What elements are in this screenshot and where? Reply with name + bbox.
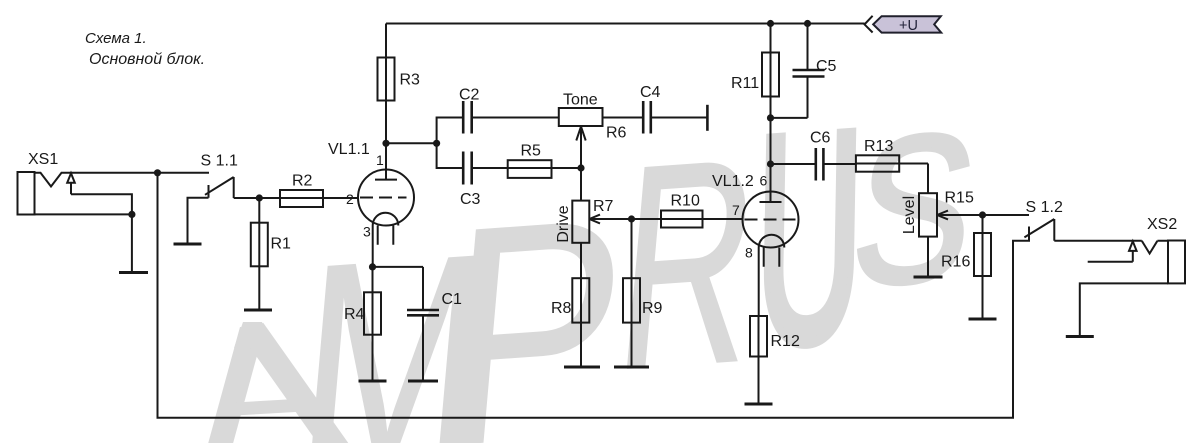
node R5-wiper-R7 xyxy=(577,164,584,171)
svg-text:7: 7 xyxy=(732,202,740,218)
VL1.1 cathode xyxy=(373,213,399,267)
ground R16 xyxy=(969,318,997,321)
wire XS2 ring stub xyxy=(1088,261,1133,263)
wire XS1 tip line xyxy=(35,173,210,187)
svg-text:2: 2 xyxy=(346,191,354,207)
wire ground bus xyxy=(158,173,1030,418)
title text xyxy=(85,30,205,68)
node anode VL1.1 xyxy=(382,140,389,147)
svg-text:R11: R11 xyxy=(731,75,759,92)
svg-text:R16: R16 xyxy=(941,254,970,271)
wire tone output xyxy=(603,117,644,119)
ground C1 xyxy=(408,380,438,383)
resistor R16 xyxy=(974,215,991,319)
svg-text:VL1.2: VL1.2 xyxy=(712,173,754,190)
svg-text:1: 1 xyxy=(376,152,384,168)
node R1-R2 xyxy=(256,194,263,201)
capacitor C2 xyxy=(437,101,559,143)
wire S1.2 to XS2 xyxy=(1054,241,1168,254)
wire node to anode xyxy=(770,118,772,164)
node C5 top xyxy=(804,20,811,27)
svg-text:XS1: XS1 xyxy=(28,151,58,168)
node XS1 sleeve junction xyxy=(128,211,135,218)
svg-text:C3: C3 xyxy=(460,191,481,208)
resistor R8 xyxy=(572,278,589,367)
svg-text:C4: C4 xyxy=(640,84,661,101)
resistor R4 xyxy=(364,267,381,381)
capacitor C4 xyxy=(643,101,707,134)
node R11-C5 xyxy=(767,114,774,121)
ground R8 xyxy=(564,366,600,369)
svg-text:C1: C1 xyxy=(442,291,463,308)
switch S1.1 xyxy=(188,177,234,244)
svg-text:R9: R9 xyxy=(642,300,663,317)
svg-text:R4: R4 xyxy=(344,306,365,323)
connector XS1 xyxy=(18,172,35,215)
svg-text:C6: C6 xyxy=(810,130,831,147)
ground R15 xyxy=(914,276,943,279)
potentiometer R15 Level xyxy=(919,193,983,277)
resistor R11 xyxy=(762,24,779,118)
svg-text:R6: R6 xyxy=(606,125,627,142)
svg-text:Drive: Drive xyxy=(555,205,572,242)
ground XS2 xyxy=(1066,335,1094,338)
svg-text:XS2: XS2 xyxy=(1147,216,1177,233)
svg-text:8: 8 xyxy=(745,245,753,261)
resistor R2 xyxy=(259,190,358,207)
ground XS1 xyxy=(119,271,148,274)
switch S1.2 xyxy=(1024,219,1054,241)
svg-text:Основной блок.: Основной блок. xyxy=(89,51,205,68)
svg-text:R7: R7 xyxy=(593,198,614,215)
VL1.1 grid xyxy=(360,197,407,199)
svg-text:6: 6 xyxy=(760,173,768,189)
wire anode to split xyxy=(386,142,437,144)
node R15-R16 xyxy=(979,211,986,218)
resistor R13 xyxy=(856,155,928,193)
potentiometer R6 Tone xyxy=(559,108,603,168)
svg-text:Схема 1.: Схема 1. xyxy=(85,30,147,47)
tube VL1.1 xyxy=(358,170,414,226)
node wiper R9 R10 xyxy=(628,215,635,222)
watermark AMPRUS xyxy=(216,69,988,443)
XS2 ring contact arrow xyxy=(1129,241,1137,261)
wire S1.1 to node xyxy=(234,197,280,199)
ground S1.1 xyxy=(174,243,202,246)
svg-text:C5: C5 xyxy=(816,58,837,75)
svg-text:3: 3 xyxy=(363,224,371,240)
ground R1 xyxy=(244,309,272,312)
wire XS1 down xyxy=(131,214,133,272)
capacitor C3 xyxy=(437,143,508,184)
svg-text:R12: R12 xyxy=(771,333,800,350)
ground R4 xyxy=(359,380,387,383)
svg-text:R3: R3 xyxy=(400,72,421,89)
svg-text:C2: C2 xyxy=(459,87,480,104)
node top-left bus junction xyxy=(154,169,161,176)
svg-text:R2: R2 xyxy=(292,173,313,190)
resistor R1 xyxy=(251,198,268,310)
resistor R12 xyxy=(750,316,767,404)
capacitor C1 xyxy=(407,267,439,381)
svg-text:Tone: Tone xyxy=(563,92,598,109)
ground R12 xyxy=(745,403,773,406)
resistor R5 xyxy=(508,160,581,178)
wire node to S1.2 xyxy=(983,214,1030,216)
node R11 top xyxy=(767,20,774,27)
resistor R10 xyxy=(632,211,743,228)
capacitor C6 xyxy=(771,148,856,181)
connector XS2 xyxy=(1168,241,1185,284)
wire XS1 ring to junction xyxy=(71,194,132,214)
svg-text:R1: R1 xyxy=(271,236,292,253)
resistor R3 xyxy=(378,24,395,144)
svg-text:VL1.1: VL1.1 xyxy=(328,141,370,158)
svg-text:S 1.1: S 1.1 xyxy=(201,153,238,170)
tube VL1.2 xyxy=(743,192,799,248)
ground R9 xyxy=(614,366,649,369)
svg-text:R8: R8 xyxy=(551,300,572,317)
C4 output terminal xyxy=(706,105,709,131)
wire cathode to C1 xyxy=(373,266,424,268)
power flag +U xyxy=(865,16,942,34)
svg-text:Level: Level xyxy=(901,196,918,234)
svg-text:R10: R10 xyxy=(671,193,700,210)
node C2-C3 split xyxy=(433,140,440,147)
svg-text:+U: +U xyxy=(899,18,918,34)
svg-text:R15: R15 xyxy=(945,190,974,207)
capacitor C5 xyxy=(771,24,825,118)
potentiometer R7 Drive xyxy=(572,168,631,278)
node anode VL1.2 xyxy=(767,160,774,167)
node cathode junction xyxy=(369,263,376,270)
resistor R9 xyxy=(623,219,640,367)
wire XS2 sleeve line xyxy=(1080,283,1168,336)
XS1 ring contact arrow xyxy=(67,173,75,194)
VL1.2 cathode xyxy=(759,235,785,316)
wire XS1 sleeve line xyxy=(35,213,132,215)
svg-text:R5: R5 xyxy=(521,143,542,160)
VL1.2 grid xyxy=(745,219,797,221)
VL1.1 anode xyxy=(375,143,397,179)
VL1.2 anode xyxy=(760,164,782,202)
svg-text:S 1.2: S 1.2 xyxy=(1026,199,1063,216)
svg-text:R13: R13 xyxy=(864,138,893,155)
wire top supply bus xyxy=(386,23,865,25)
